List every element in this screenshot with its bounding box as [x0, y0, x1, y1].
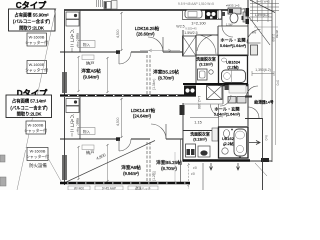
bottom tiny boxed texts	[68, 186, 90, 190]
svg-text:シャッター付: シャッター付	[25, 40, 48, 45]
porch line D	[202, 163, 204, 190]
dark hatch wall under C bath	[218, 85, 248, 87]
shower oval C	[222, 58, 227, 62]
arrows below wall	[210, 163, 213, 170]
svg-text:納戸: 納戸	[86, 149, 94, 156]
fixtures above top wall: comb	[97, 0, 103, 7]
balcony inner wall C	[79, 10, 81, 52]
basin counter D	[198, 146, 210, 157]
svg-text:避難ハッチ: 避難ハッチ	[76, 117, 80, 132]
balcony inner wall D	[79, 97, 81, 139]
fridge dark D	[180, 105, 185, 115]
margin tick marks left edge	[0, 155, 5, 162]
svg-text:1,390(6.2): 1,390(6.2)	[255, 13, 270, 17]
kitchen C top right	[183, 10, 223, 20]
dim dashed line below D	[188, 163, 190, 189]
D door arc to corridor	[246, 86, 258, 98]
svg-text:(バルコニー含まず): (バルコニー含まず)	[13, 18, 51, 25]
door arc bedroom A D	[119, 139, 131, 151]
kitchen D sink marks	[225, 85, 231, 90]
stairs steps top right	[250, 4, 279, 21]
svg-text:W=50: W=50	[275, 30, 279, 38]
svg-text:9.5 9+45 AAP 1,510 W=5: 9.5 9+45 AAP 1,510 W=5	[178, 2, 214, 6]
stove C	[205, 10, 217, 19]
svg-text:W-1600B: W-1600B	[29, 36, 45, 40]
LDK / bedrooms divider wall D	[60, 138, 119, 140]
svg-text:1.5W2.5: 1.5W2.5	[184, 31, 197, 35]
dishwasher capsule C	[218, 10, 222, 19]
stair diagonal 2	[249, 17, 270, 45]
window on left wall D	[63, 155, 66, 180]
window spec box 3 (D)	[26, 121, 46, 134]
stair verticals	[253, 0, 269, 118]
toilet D	[212, 128, 218, 141]
svg-text:1.15: 1.15	[194, 121, 201, 125]
svg-text:≠0: ≠0	[191, 172, 195, 176]
kitchen D upper cabinets	[229, 85, 246, 93]
svg-text:W-1600B: W-1600B	[29, 63, 45, 67]
svg-text:避難ハッチ: 避難ハッチ	[76, 32, 80, 47]
svg-text:(9.94m²): (9.94m²)	[83, 75, 99, 80]
A/B divider (sliding) D	[147, 142, 150, 184]
UB bath D	[219, 127, 249, 158]
svg-text:W-1600B: W-1600B	[28, 124, 44, 128]
svg-text:(3.13m²): (3.13m²)	[199, 63, 213, 67]
wall right of LDK C	[182, 30, 184, 56]
svg-text:ホール・玄関: ホール・玄関	[220, 37, 245, 44]
stair diagonal 1	[250, 0, 275, 13]
svg-text:1.5W: 1.5W	[226, 23, 233, 27]
bottom wall D right (dark)	[183, 159, 250, 161]
balcony equipment boxes C	[66, 12, 79, 19]
window spec box 4 (D)	[27, 148, 48, 161]
storage box above wall C	[78, 41, 95, 48]
toilet C	[228, 8, 241, 14]
long leader line left margin	[26, 8, 56, 148]
hall C walls	[196, 34, 218, 36]
washroom C walls	[196, 54, 248, 56]
dim line inside balcony C	[78, 56, 80, 92]
fixtures above top wall: light box	[112, 1, 118, 10]
door arc into LDK C	[148, 37, 163, 52]
sink C	[185, 10, 202, 18]
vertical tick right of toilet C	[244, 8, 246, 22]
shower circle D	[222, 148, 228, 154]
svg-text:Cタイプ: Cタイプ	[16, 0, 47, 10]
diagonal dim line D	[63, 141, 155, 184]
wall end cap blob D	[116, 137, 120, 141]
window spec box 1 (C)	[27, 33, 47, 46]
svg-text:5.64m²(1.64m²): 5.64m²(1.64m²)	[220, 44, 247, 48]
svg-text:(バルコニー含まず): (バルコニー含まず)	[10, 105, 48, 112]
dim line D rooms mid	[107, 144, 109, 182]
dim line B room D	[174, 152, 176, 182]
svg-text:避難ハッチ: 避難ハッチ	[135, 186, 151, 191]
svg-text:シャッター付: シャッター付	[25, 68, 48, 73]
svg-text:洗面脱衣室: 洗面脱衣室	[196, 57, 216, 62]
svg-text:洋室B5.25帖: 洋室B5.25帖	[156, 159, 182, 166]
leader from box4	[48, 158, 62, 183]
window on left wall C	[63, 72, 66, 93]
closet X (C)	[183, 36, 197, 56]
svg-text:9=0: 9=0	[264, 135, 268, 141]
door arc D kitchen	[220, 95, 231, 106]
svg-text:バルコニー: バルコニー	[69, 29, 75, 52]
svg-text:W=400: W=400	[74, 187, 84, 191]
dark marks on corridor wall	[246, 8, 250, 17]
svg-text:(3.13m²): (3.13m²)	[193, 138, 207, 142]
bottom wall D (hatched dark)	[60, 182, 190, 184]
LDK D vertical dim line	[121, 98, 123, 138]
stove D	[184, 86, 196, 97]
svg-text:W-1600B: W-1600B	[30, 150, 46, 154]
svg-text:バルコニー: バルコニー	[69, 114, 75, 137]
B room right wall D	[181, 139, 183, 183]
svg-text:(9.94m²): (9.94m²)	[123, 171, 139, 176]
corridor wall stub	[245, 96, 252, 98]
storage box above wall D	[78, 128, 95, 135]
A/B divider (sliding) C	[146, 55, 148, 95]
balcony outer wall C	[64, 10, 66, 95]
corridor dim line	[252, 73, 274, 75]
UB bath C	[219, 56, 248, 85]
svg-text:(2.2帖): (2.2帖)	[223, 141, 234, 146]
svg-text:UB1624: UB1624	[226, 60, 241, 65]
svg-text:9=45 W=5: 9=45 W=5	[256, 0, 270, 4]
svg-text:≠0: ≠0	[193, 166, 197, 170]
svg-text:占有面積 55.90m²: 占有面積 55.90m²	[14, 12, 49, 19]
fixtures above top wall: box with dark bar	[104, 2, 111, 10]
washroom D walls	[183, 130, 218, 132]
kitchen D side wall	[222, 84, 224, 104]
party wall C/D (hatched)	[60, 94, 196, 96]
svg-text:1,390(6.2): 1,390(6.2)	[255, 68, 270, 72]
wall under washroom C (dark)	[183, 83, 248, 85]
svg-text:(1.2帖): (1.2帖)	[151, 171, 156, 181]
svg-text:4,500: 4,500	[116, 29, 120, 38]
fridge circle C	[209, 70, 213, 74]
washbasin C	[243, 12, 248, 22]
svg-text:(24.64m²): (24.64m²)	[133, 114, 152, 119]
balcony outer wall D	[64, 97, 66, 185]
svg-text:洋室A6帖: 洋室A6帖	[121, 164, 141, 171]
washing machine C	[198, 69, 208, 80]
svg-text:防火設備: 防火設備	[29, 162, 47, 169]
svg-text:4,500: 4,500	[116, 117, 120, 126]
corridor wall x248	[247, 0, 249, 56]
svg-text:L=2,100: L=2,100	[197, 96, 201, 109]
svg-text:給湯器14号: 給湯器14号	[254, 100, 274, 105]
svg-text:9=45 AAP: 9=45 AAP	[102, 187, 116, 191]
svg-text:(26.60m²): (26.60m²)	[136, 32, 155, 37]
door arc entry C	[222, 26, 233, 37]
blob on wall right	[261, 158, 269, 162]
entrance door arc C to corridor	[247, 30, 261, 44]
svg-text:洋室A5帖: 洋室A5帖	[81, 68, 101, 75]
building right edge	[262, 118, 264, 190]
shoe cabinet C	[251, 45, 258, 55]
door arc bedroom A C	[119, 52, 131, 64]
balcony equipment boxes D	[66, 99, 79, 106]
svg-text:W2.5: W2.5	[176, 25, 184, 29]
wall end cap blob C	[116, 50, 120, 54]
hall/toilet wall D	[218, 104, 220, 130]
toilet oval in UB D	[224, 130, 230, 138]
svg-text:(2.2帖): (2.2帖)	[227, 65, 238, 70]
svg-text:9=0: 9=0	[276, 80, 280, 86]
svg-text:2,350: 2,350	[272, 34, 276, 42]
svg-text:洋室B5.25帖: 洋室B5.25帖	[153, 69, 179, 76]
D-type spec box	[6, 95, 52, 118]
svg-text:占有面積 57.14m²: 占有面積 57.14m²	[12, 98, 47, 105]
C-type spec box	[9, 9, 56, 31]
counter boxes D	[228, 97, 236, 104]
hall top wall D	[183, 103, 223, 105]
wall hall/washroom D	[190, 117, 219, 119]
top wall C	[64, 9, 228, 11]
dim line D rooms	[78, 146, 80, 180]
D entry door arc	[248, 107, 259, 118]
dim line C rooms mid	[107, 57, 109, 93]
entry arrow D	[249, 141, 260, 145]
LDK C vertical dim line	[121, 12, 123, 51]
bathtub D (vertical)	[234, 129, 247, 156]
sliding door track line C	[140, 50, 180, 52]
svg-text:洗面脱衣室: 洗面脱衣室	[190, 132, 210, 137]
washroom door arc D	[211, 105, 224, 118]
svg-text:シャッター付: シャッター付	[24, 128, 47, 133]
svg-text:(8.70m²): (8.70m²)	[158, 76, 174, 81]
svg-text:物入: 物入	[83, 129, 91, 134]
door arc into LDK D	[151, 124, 166, 139]
leader to wall blob D	[255, 163, 267, 176]
bathtub C	[222, 70, 246, 83]
window spec box 2 (C)	[27, 61, 47, 74]
svg-text:(1.34m): (1.34m)	[152, 79, 156, 90]
door arc hall C	[197, 35, 216, 54]
svg-text:物入: 物入	[83, 42, 91, 47]
svg-text:1=2,100: 1=2,100	[191, 21, 206, 26]
svg-text:9.5日=45: 9.5日=45	[185, 27, 197, 31]
svg-text:納戸: 納戸	[86, 60, 94, 67]
closet X (D kitchen strip)	[207, 86, 223, 100]
LDK / bedrooms divider wall C	[60, 51, 119, 53]
svg-text:シャッター付: シャッター付	[26, 154, 49, 159]
washing machine D	[186, 144, 196, 157]
